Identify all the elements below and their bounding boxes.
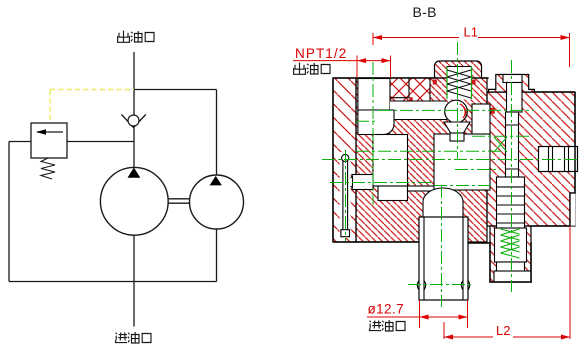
svg-text:L1: L1 [464, 25, 478, 40]
svg-text:L2: L2 [496, 323, 510, 338]
svg-text:B-B: B-B [413, 4, 437, 20]
svg-text:NPT1/2: NPT1/2 [295, 46, 347, 61]
svg-text:ø12.7: ø12.7 [368, 302, 405, 317]
